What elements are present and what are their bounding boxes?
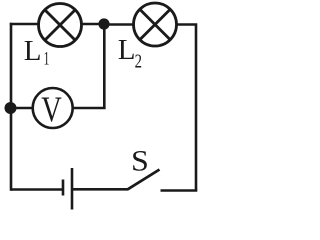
lamp L1 (39, 4, 82, 47)
svg-text:V: V (41, 90, 62, 130)
svg-text:1: 1 (44, 49, 50, 69)
wire junction to voltmeter (11, 107, 35, 110)
wire L2 to top-right corner and right side (176, 25, 196, 191)
switch S blade (128, 170, 160, 190)
svg-text:2: 2 (135, 49, 142, 72)
svg-text:L: L (24, 35, 42, 67)
battery cell: long plate (positive) (71, 168, 74, 210)
lamp L2 (134, 3, 177, 46)
battery cell: short plate (negative) (62, 180, 65, 196)
wire junction to L2 (104, 23, 135, 26)
wire L1 to junction (81, 23, 104, 26)
wire bottom-left (11, 188, 63, 191)
wire battery to switch (72, 188, 128, 191)
svg-text:S: S (131, 143, 149, 177)
node junction top (98, 18, 109, 29)
wire left side vertical (10, 23, 13, 191)
wire voltmeter to riser (73, 107, 106, 110)
wire riser to top junction (103, 24, 106, 108)
voltmeter V (33, 88, 73, 128)
node junction left (5, 102, 17, 114)
wire switch to bottom-right corner (161, 189, 198, 192)
wire top-left horizontal (10, 23, 40, 26)
svg-text:L: L (118, 34, 136, 66)
